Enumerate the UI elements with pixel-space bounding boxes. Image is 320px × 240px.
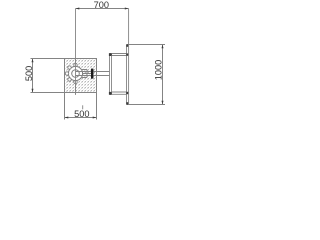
column bolt mark bottom — [126, 102, 128, 104]
dimension 500 left line — [32, 59, 34, 93]
column bolt mark upper joint — [126, 53, 128, 55]
extension line / flange centerline (vertical) — [75, 9, 77, 95]
bolt hole N — [74, 63, 77, 66]
flange bore circle — [72, 70, 80, 78]
extension line left bottom — [31, 92, 65, 94]
svg-text:700: 700 — [94, 0, 109, 10]
dimension 1000 line — [162, 45, 164, 105]
washer (black) — [91, 69, 93, 79]
bracket bolt top — [109, 53, 112, 56]
bolt hole SW — [68, 78, 71, 81]
extension line bottom-500 left — [64, 93, 66, 120]
extension line bottom-500 right — [96, 93, 98, 120]
flange horizontal centerline — [65, 73, 91, 75]
extension line 700 right / column right edge (vertical) — [128, 9, 130, 105]
svg-text:500: 500 — [74, 109, 89, 119]
dimension 500 bottom line — [65, 117, 97, 119]
flange outer circle — [68, 66, 82, 80]
bracket bolt bottom — [109, 92, 112, 95]
extension line 1000 bottom — [129, 104, 165, 106]
top connector lines — [112, 54, 127, 56]
svg-text:500: 500 — [24, 66, 34, 81]
bolt hole S — [74, 80, 77, 83]
flange crosshair vertical (on top of circle) — [75, 59, 77, 95]
svg-text:1000: 1000 — [154, 60, 164, 80]
column verticals — [127, 45, 129, 105]
extension line left top — [31, 58, 65, 60]
bottom connector lines — [112, 92, 127, 94]
bolt hole W — [65, 72, 68, 75]
bolt hole NW — [68, 66, 71, 69]
shaft lines right of washer — [93, 72, 109, 76]
hub outer lines — [82, 70, 87, 78]
column bolt mark top — [126, 44, 128, 46]
dimension 700 line — [76, 8, 129, 10]
shaft lines left of washer — [76, 72, 92, 76]
bracket plate verticals — [110, 54, 112, 95]
column bolt mark lower joint — [126, 92, 128, 94]
small tick above bottom text — [82, 105, 84, 109]
hatched pier square — [65, 59, 97, 93]
extension line 1000 top — [129, 44, 165, 46]
